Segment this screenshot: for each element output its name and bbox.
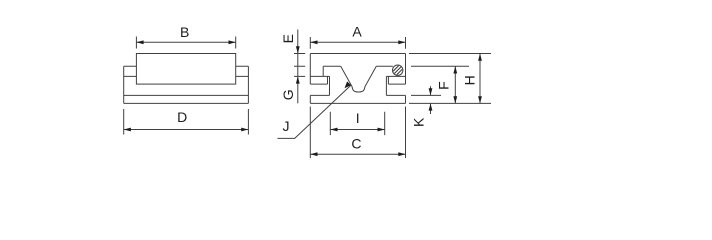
svg-text:D: D (177, 109, 187, 125)
svg-text:C: C (351, 135, 361, 151)
svg-text:F: F (436, 81, 452, 90)
svg-text:G: G (280, 89, 296, 100)
svg-text:A: A (352, 24, 362, 40)
svg-text:E: E (280, 34, 296, 43)
svg-text:K: K (411, 117, 427, 127)
svg-text:J: J (283, 118, 290, 134)
svg-text:B: B (180, 24, 189, 40)
svg-text:I: I (356, 110, 360, 126)
svg-text:H: H (462, 75, 478, 85)
